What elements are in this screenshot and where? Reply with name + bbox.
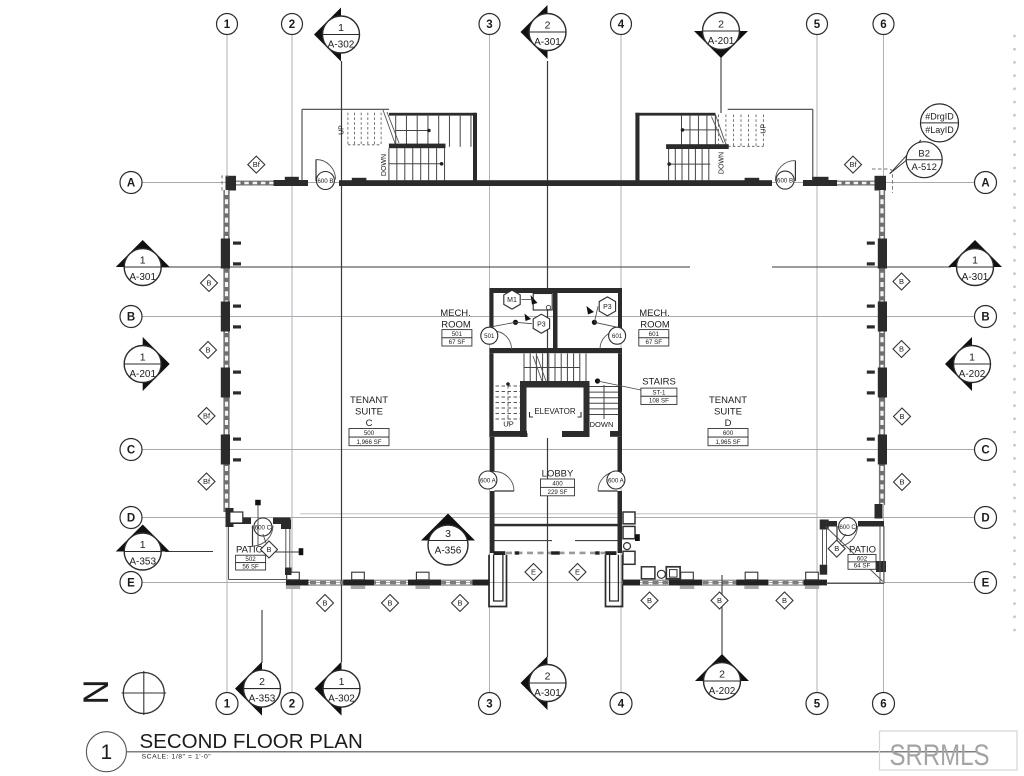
svg-text:1: 1 bbox=[140, 539, 146, 551]
svg-text:2: 2 bbox=[545, 20, 551, 32]
svg-text:2: 2 bbox=[545, 671, 551, 683]
svg-text:B: B bbox=[322, 599, 327, 608]
svg-text:Bf: Bf bbox=[849, 160, 857, 169]
svg-text:500: 500 bbox=[364, 430, 375, 437]
svg-text:229 SF: 229 SF bbox=[548, 489, 568, 496]
svg-text:B: B bbox=[981, 312, 989, 324]
svg-text:ROOM: ROOM bbox=[640, 320, 670, 331]
svg-text:600 B: 600 B bbox=[777, 178, 793, 185]
svg-text:B: B bbox=[899, 478, 904, 487]
svg-text:MECH.: MECH. bbox=[639, 308, 670, 319]
svg-text:A-353: A-353 bbox=[249, 694, 276, 705]
svg-text:1: 1 bbox=[969, 352, 975, 364]
svg-text:B: B bbox=[782, 596, 787, 605]
svg-text:A-301: A-301 bbox=[534, 37, 561, 48]
svg-text:LOBBY: LOBBY bbox=[542, 469, 574, 480]
svg-text:E: E bbox=[982, 578, 990, 590]
svg-text:56 SF: 56 SF bbox=[242, 563, 259, 570]
svg-text:D: D bbox=[981, 513, 989, 525]
svg-text:601: 601 bbox=[612, 333, 623, 340]
svg-text:A-302: A-302 bbox=[328, 694, 355, 705]
svg-text:E: E bbox=[531, 568, 536, 577]
svg-text:B: B bbox=[206, 279, 211, 288]
svg-text:501: 501 bbox=[452, 331, 463, 338]
svg-text:602: 602 bbox=[857, 555, 868, 562]
svg-text:600: 600 bbox=[723, 430, 734, 437]
svg-text:1: 1 bbox=[140, 255, 146, 267]
svg-text:3: 3 bbox=[486, 19, 492, 31]
svg-text:N: N bbox=[77, 679, 116, 704]
svg-text:B: B bbox=[899, 277, 904, 286]
svg-text:2: 2 bbox=[718, 19, 724, 31]
svg-text:2: 2 bbox=[719, 669, 725, 681]
svg-text:B: B bbox=[127, 312, 135, 324]
svg-text:P3: P3 bbox=[603, 304, 612, 311]
svg-text:TENANT: TENANT bbox=[350, 395, 388, 406]
svg-text:5: 5 bbox=[814, 19, 821, 31]
svg-text:B: B bbox=[205, 346, 210, 355]
svg-text:A-302: A-302 bbox=[328, 40, 355, 51]
svg-text:501: 501 bbox=[484, 333, 495, 340]
svg-text:SUITE: SUITE bbox=[355, 407, 383, 418]
svg-text:ELEVATOR: ELEVATOR bbox=[534, 407, 576, 416]
svg-text:A-301: A-301 bbox=[534, 688, 561, 699]
svg-text:2: 2 bbox=[289, 699, 295, 711]
svg-text:5: 5 bbox=[814, 699, 821, 711]
svg-text:PATIO: PATIO bbox=[849, 545, 876, 556]
svg-text:SUITE: SUITE bbox=[714, 407, 742, 418]
svg-text:C: C bbox=[366, 418, 373, 429]
svg-text:ST-1: ST-1 bbox=[652, 390, 666, 397]
svg-text:Bf: Bf bbox=[253, 160, 261, 169]
svg-text:6: 6 bbox=[880, 19, 886, 31]
svg-text:B: B bbox=[457, 599, 462, 608]
svg-text:SCALE: 1/8" = 1'-0": SCALE: 1/8" = 1'-0" bbox=[142, 754, 212, 761]
svg-text:4: 4 bbox=[618, 19, 625, 31]
svg-text:SECOND FLOOR PLAN: SECOND FLOOR PLAN bbox=[140, 730, 363, 753]
svg-text:DOWN: DOWN bbox=[719, 152, 726, 174]
svg-text:1: 1 bbox=[224, 19, 231, 31]
svg-text:B: B bbox=[899, 345, 904, 354]
svg-text:A-301: A-301 bbox=[129, 272, 156, 283]
svg-text:C: C bbox=[127, 445, 135, 457]
svg-text:B: B bbox=[647, 596, 652, 605]
svg-text:1: 1 bbox=[140, 352, 146, 364]
svg-text:600 A: 600 A bbox=[480, 478, 497, 485]
svg-text:B: B bbox=[266, 545, 271, 554]
svg-text:A-202: A-202 bbox=[709, 686, 736, 697]
svg-text:MECH.: MECH. bbox=[440, 308, 471, 319]
svg-text:2: 2 bbox=[289, 19, 295, 31]
svg-text:B2: B2 bbox=[918, 149, 930, 160]
svg-text:2: 2 bbox=[259, 676, 265, 688]
svg-text:E: E bbox=[575, 568, 580, 577]
svg-text:4: 4 bbox=[618, 699, 625, 711]
svg-text:A-201: A-201 bbox=[708, 36, 735, 47]
svg-text:M1: M1 bbox=[507, 297, 517, 304]
svg-text:A: A bbox=[981, 178, 989, 190]
svg-text:A-353: A-353 bbox=[129, 557, 156, 568]
svg-text:502: 502 bbox=[245, 556, 256, 563]
svg-text:600 C: 600 C bbox=[839, 524, 856, 531]
svg-text:108 SF: 108 SF bbox=[649, 398, 669, 405]
svg-text:A-301: A-301 bbox=[962, 272, 989, 283]
svg-text:67 SF: 67 SF bbox=[449, 339, 466, 346]
svg-text:64 SF: 64 SF bbox=[854, 563, 871, 570]
svg-text:1,966 SF: 1,966 SF bbox=[356, 439, 381, 446]
svg-text:UP: UP bbox=[761, 124, 768, 134]
svg-text:A-201: A-201 bbox=[129, 369, 156, 380]
svg-text:1: 1 bbox=[339, 676, 345, 688]
svg-text:Bf: Bf bbox=[203, 477, 211, 486]
svg-text:E: E bbox=[127, 578, 135, 590]
svg-text:1: 1 bbox=[224, 699, 231, 711]
svg-text:67 SF: 67 SF bbox=[646, 339, 663, 346]
svg-text:D: D bbox=[725, 418, 732, 429]
svg-text:A-202: A-202 bbox=[959, 369, 986, 380]
svg-text:400: 400 bbox=[552, 481, 563, 488]
svg-text:1: 1 bbox=[101, 741, 113, 764]
svg-text:B: B bbox=[834, 544, 839, 553]
svg-text:3: 3 bbox=[445, 528, 451, 540]
svg-text:A: A bbox=[127, 178, 135, 190]
svg-text:3: 3 bbox=[486, 699, 492, 711]
svg-text:1: 1 bbox=[338, 22, 344, 34]
svg-text:A-356: A-356 bbox=[435, 546, 462, 557]
svg-text:#DrgID: #DrgID bbox=[925, 112, 954, 122]
svg-text:1: 1 bbox=[972, 255, 978, 267]
svg-text:A-512: A-512 bbox=[912, 162, 937, 173]
svg-text:DOWN: DOWN bbox=[381, 154, 388, 176]
svg-text:P3: P3 bbox=[537, 321, 546, 328]
svg-text:DOWN: DOWN bbox=[590, 420, 614, 429]
svg-text:UP: UP bbox=[503, 420, 513, 429]
svg-text:1,965 SF: 1,965 SF bbox=[715, 439, 740, 446]
svg-text:D: D bbox=[127, 513, 135, 525]
svg-text:600 B: 600 B bbox=[317, 178, 333, 185]
svg-text:600 C: 600 C bbox=[255, 525, 272, 532]
svg-text:B: B bbox=[717, 596, 722, 605]
svg-text:PATIO: PATIO bbox=[236, 545, 263, 556]
svg-text:600 A: 600 A bbox=[608, 478, 625, 485]
svg-text:6: 6 bbox=[880, 699, 886, 711]
svg-text:B: B bbox=[899, 412, 904, 421]
svg-text:UP: UP bbox=[339, 125, 346, 135]
svg-text:C: C bbox=[981, 445, 989, 457]
svg-text:ROOM: ROOM bbox=[441, 320, 471, 331]
svg-text:B: B bbox=[387, 599, 392, 608]
svg-text:#LayID: #LayID bbox=[925, 125, 954, 135]
svg-text:SRRMLS: SRRMLS bbox=[890, 739, 990, 772]
svg-text:601: 601 bbox=[649, 331, 660, 338]
svg-text:TENANT: TENANT bbox=[709, 395, 747, 406]
svg-text:Bf: Bf bbox=[203, 412, 211, 421]
svg-text:STAIRS: STAIRS bbox=[642, 377, 676, 388]
